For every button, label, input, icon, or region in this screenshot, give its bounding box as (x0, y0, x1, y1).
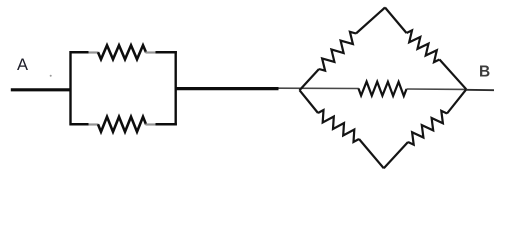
wire from A to parallel block (11, 88, 72, 91)
wire upper-left branch upper segment (356, 8, 385, 34)
wire upper-left branch lower segment (300, 69, 320, 90)
wire from bridge to right edge (node B wire) (466, 89, 494, 91)
lead right of resistor R1 (146, 51, 156, 53)
wire lower-right branch upper segment (447, 89, 466, 113)
wire middle branch right (thin) (407, 88, 467, 90)
resistor R4 (bridge upper-right) (407, 30, 440, 62)
resistor R6 (bridge lower-left) (318, 110, 359, 142)
node junction left of parallel block (69, 51, 71, 125)
resistor R3 (bridge upper-left) (319, 32, 356, 71)
svg-text:B: B (479, 64, 490, 81)
node junction right of parallel block (174, 51, 176, 125)
svg-text:A: A (17, 56, 28, 74)
lead right of resistor R2 (146, 123, 156, 125)
lead left of resistor R1 (89, 51, 99, 53)
wire upper-right branch lower segment (440, 60, 467, 90)
wire lower-left branch upper segment (300, 90, 319, 113)
wire upper-right branch upper segment (385, 8, 407, 34)
wire top branch right (156, 51, 177, 54)
resistor R5 (bridge middle) (359, 82, 407, 96)
wire from parallel block to bridge (175, 87, 279, 90)
stray dot (50, 75, 52, 77)
resistor R1 (top of parallel pair) (98, 45, 146, 59)
wire bottom branch left (70, 123, 89, 126)
wire middle branch left (thin) (279, 87, 359, 89)
wire top branch left (70, 51, 89, 54)
resistor R7 (bridge lower-right) (408, 111, 447, 145)
wire lower-right branch lower segment (384, 142, 408, 168)
wire lower-left branch lower segment (359, 139, 384, 168)
lead left of resistor R2 (89, 123, 99, 125)
wire bottom branch right (156, 123, 177, 126)
resistor R2 (bottom of parallel pair) (98, 117, 146, 132)
